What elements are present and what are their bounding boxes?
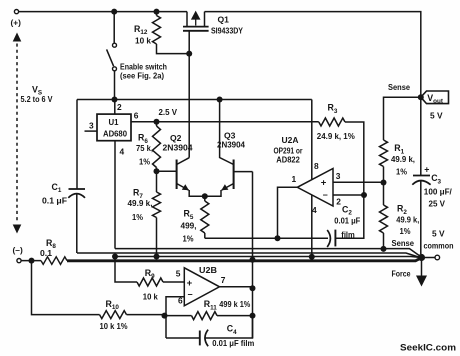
node R6 / R7 / Q2 base	[154, 168, 160, 174]
resistor R10 zigzag	[100, 311, 127, 319]
svg-text:+: +	[424, 165, 429, 175]
svg-text:–: –	[323, 189, 328, 199]
enable switch bottom contact	[113, 67, 117, 71]
svg-text:5 V: 5 V	[430, 111, 443, 121]
wire top rail left segment	[19, 11, 187, 13]
svg-text:7: 7	[221, 275, 226, 285]
node U2A output / R5 / C2	[275, 235, 281, 241]
node R1 / R2 / pin3	[381, 180, 387, 186]
svg-text:+: +	[321, 178, 327, 189]
capacitor C3 straight plate	[413, 175, 430, 177]
wire Q1 gate to Q2 collector	[188, 54, 190, 158]
svg-text:1%: 1%	[183, 233, 194, 243]
node 5V common junction	[418, 254, 425, 261]
node Vout sense	[418, 94, 424, 100]
wire top rail right segment	[205, 12, 421, 95]
op-amp U2B triangle	[184, 268, 219, 306]
resistor R9 zigzag	[137, 278, 163, 286]
node top rail to switch	[111, 9, 117, 15]
transistor Q2 base wire	[157, 170, 177, 172]
resistor R5 leads	[204, 196, 206, 238]
svg-text:2N3904: 2N3904	[163, 142, 193, 152]
svg-text:SeekIC.com: SeekIC.com	[400, 342, 456, 353]
wire force line	[67, 258, 422, 261]
enable switch lever	[107, 49, 114, 66]
capacitor C1 straight plate	[69, 188, 86, 190]
wire U2A pin4	[311, 195, 313, 256]
node emitters / R5	[202, 193, 208, 199]
Vs polarity down arrow	[13, 225, 22, 234]
(+) input terminal	[14, 10, 18, 14]
transistor Q2 emitter	[177, 184, 205, 197]
transistor Q1 gate lead	[188, 31, 190, 54]
capacitor C3 curved plate	[412, 181, 430, 185]
wire switched supply rail	[77, 99, 312, 101]
capacitor C4 curved plate	[205, 330, 208, 347]
svg-text:common: common	[424, 240, 454, 250]
wire U2A pin2	[333, 194, 364, 196]
node R7 / common	[154, 254, 160, 260]
resistor R1 zigzag	[380, 140, 388, 167]
transistor Q3 emitter	[205, 184, 234, 197]
svg-text:SI9433DY: SI9433DY	[211, 26, 243, 36]
resistor R11 zigzag	[192, 312, 218, 320]
node R8 / R10 branch	[29, 258, 35, 264]
resistor R3 zigzag	[319, 118, 345, 126]
resistor R3 right lead	[345, 122, 364, 195]
wire R10 branch	[32, 261, 100, 315]
node switch / supply rail	[112, 97, 118, 103]
svg-text:(see Fig. 2a): (see Fig. 2a)	[120, 71, 164, 81]
svg-text:4: 4	[120, 147, 125, 157]
transistor Q2 base bar	[176, 160, 178, 190]
svg-text:Sense: Sense	[392, 238, 415, 248]
wire R9 branch	[115, 257, 137, 283]
wire U1 pin3 stub	[85, 130, 98, 132]
svg-text:49.9 k,: 49.9 k,	[391, 154, 415, 164]
wire U1 pin2	[114, 100, 116, 115]
svg-text:75 k,: 75 k,	[136, 143, 153, 153]
capacitor C2 straight plate	[334, 230, 336, 247]
svg-text:–: –	[188, 289, 193, 299]
transistor Q2 collector	[177, 158, 190, 165]
svg-text:499 k 1%: 499 k 1%	[219, 299, 250, 309]
svg-text:0.1 μF: 0.1 μF	[42, 196, 67, 206]
wire sense to R1	[384, 97, 421, 140]
svg-text:2.5 V: 2.5 V	[159, 107, 178, 117]
svg-text:49.9 k,: 49.9 k,	[128, 198, 153, 208]
svg-text:25 V: 25 V	[429, 198, 446, 208]
capacitor C2 curved plate	[327, 230, 330, 247]
node U2B output / force line	[250, 257, 256, 263]
resistor R2 leads	[383, 183, 385, 249]
wire U2A pin3 to divider	[333, 181, 384, 183]
5 V common terminal	[435, 255, 440, 260]
wire Vout rail down	[420, 97, 422, 175]
wire U1 pin4	[114, 141, 116, 249]
capacitor C4 left wire	[166, 337, 200, 339]
node Q1 gate / R12	[186, 51, 192, 57]
wire R3 node to C2	[335, 195, 363, 238]
op-amp U2A triangle	[297, 169, 333, 207]
resistor R5 zigzag	[201, 201, 209, 233]
wire U2B output to force	[252, 172, 254, 338]
resistor R12 zigzag	[153, 16, 161, 45]
Vs polarity up arrow	[13, 33, 22, 42]
resistor R8 left lead	[21, 260, 41, 262]
Vout tag	[421, 91, 449, 104]
wire R11 right	[217, 315, 253, 317]
wire R10 to summing node	[127, 314, 165, 316]
svg-text:2N3904: 2N3904	[217, 139, 245, 149]
(-) input terminal	[17, 259, 21, 263]
capacitor C1 top lead	[76, 100, 78, 190]
svg-text:1%: 1%	[396, 166, 407, 176]
svg-text:Sense: Sense	[388, 82, 410, 92]
wire U2B pin6	[166, 297, 184, 338]
resistor R6 zigzag	[153, 126, 161, 168]
wire common line c1	[77, 253, 419, 257]
transistor Q3 base wire	[234, 171, 253, 173]
svg-text:2: 2	[336, 197, 341, 207]
node top rail to R12	[154, 9, 160, 15]
resistor R6 leads	[156, 122, 158, 172]
wire switch upper stub	[113, 12, 115, 44]
svg-text:Force: Force	[392, 268, 411, 278]
svg-text:U1: U1	[109, 117, 119, 127]
svg-text:(+): (+)	[11, 18, 22, 28]
wire R9 to U2B pin5	[163, 281, 184, 283]
capacitor C4 right wire	[205, 316, 252, 338]
transistor Q3 base bar	[233, 160, 235, 190]
svg-text:Q1: Q1	[218, 15, 230, 25]
resistor R8 zigzag	[41, 257, 67, 265]
svg-text:24.9 k, 1%: 24.9 k, 1%	[317, 131, 356, 141]
svg-text:5.2 to 6 V: 5.2 to 6 V	[21, 94, 53, 104]
svg-text:10 k: 10 k	[143, 292, 158, 302]
svg-text:AD680: AD680	[103, 129, 127, 139]
enable switch top contact	[113, 43, 117, 47]
transistor Q1 channel bar	[183, 26, 209, 28]
svg-text:6: 6	[134, 110, 139, 120]
transistor Q3 emitter arrow	[221, 184, 228, 190]
svg-text:0.1: 0.1	[40, 248, 52, 258]
svg-text:0.01 μF: 0.01 μF	[334, 216, 360, 226]
node U2B output	[250, 285, 256, 291]
node R10 / R11 / pin6	[162, 313, 168, 319]
force ground stem	[421, 258, 423, 277]
svg-text:0.01 μF film: 0.01 μF film	[212, 338, 254, 348]
node Q3 collector / supply rail	[217, 97, 223, 103]
svg-text:2: 2	[117, 102, 122, 112]
force ground arrow	[416, 276, 427, 287]
wire U2A output	[278, 187, 298, 238]
svg-text:4: 4	[312, 205, 317, 215]
resistor R7 zigzag	[153, 192, 161, 218]
svg-text:AD822: AD822	[276, 155, 300, 165]
resistor R1 bottom lead	[383, 167, 385, 183]
capacitor C1 curved plate	[68, 194, 85, 198]
svg-text:3: 3	[89, 120, 94, 130]
node R2 / sense line	[381, 246, 387, 252]
wire U2B output	[220, 286, 253, 288]
svg-text:8: 8	[314, 161, 319, 171]
node 2.5V / R6	[154, 119, 160, 125]
svg-text:5: 5	[176, 268, 181, 278]
transistor Q1 body arrow	[192, 12, 199, 26]
node R11 / C4 / output	[250, 313, 256, 319]
svg-text:3: 3	[336, 171, 341, 181]
capacitor C4 straight plate	[199, 331, 201, 346]
wire common to terminal	[422, 257, 436, 259]
svg-text:film: film	[341, 229, 355, 239]
svg-text:(–): (–)	[13, 245, 23, 255]
transistor Q3 collector	[220, 100, 234, 165]
node U2A pin4 / common	[309, 254, 315, 260]
transistor Q1 gate bar	[183, 30, 209, 32]
wire switch lower stub	[114, 71, 116, 100]
Vs dashed supply line	[16, 44, 18, 222]
resistor R2 zigzag	[380, 205, 388, 233]
node U1 pin4 / common	[112, 254, 118, 260]
resistor R7 leads	[156, 171, 158, 256]
wire common line c2	[115, 256, 420, 259]
wire R11 left	[165, 315, 192, 317]
svg-text:100 μF/: 100 μF/	[424, 186, 453, 196]
transistor Q1 source stub	[186, 12, 188, 27]
svg-text:49.9 k,: 49.9 k,	[396, 215, 419, 225]
svg-text:U2B: U2B	[199, 265, 217, 275]
transistor Q2 emitter arrow	[182, 184, 189, 190]
svg-text:10 k 1%: 10 k 1%	[100, 321, 129, 331]
svg-text:1: 1	[292, 174, 297, 184]
wire U1 pin6 2.5V rail	[131, 121, 319, 123]
wire sense return line	[115, 249, 422, 258]
svg-text:U2A: U2A	[282, 135, 299, 145]
wire R5 to C2	[205, 237, 328, 239]
svg-text:1%: 1%	[400, 226, 411, 236]
resistor R12 leads	[157, 12, 189, 54]
voltage reference U1 box	[97, 114, 131, 141]
capacitor C1 bottom lead	[76, 195, 78, 254]
svg-text:1%: 1%	[139, 157, 150, 167]
node pin2 / R3 / C2	[361, 192, 367, 198]
svg-text:499,: 499,	[181, 221, 197, 231]
svg-text:+: +	[187, 278, 193, 289]
svg-text:5 V: 5 V	[432, 228, 445, 238]
svg-text:1%: 1%	[132, 212, 143, 222]
transistor Q1 drain stub	[204, 12, 206, 27]
capacitor C3 bottom lead	[420, 181, 422, 254]
svg-text:10 k: 10 k	[135, 36, 151, 46]
wire supply to U2A pin8	[311, 100, 313, 180]
